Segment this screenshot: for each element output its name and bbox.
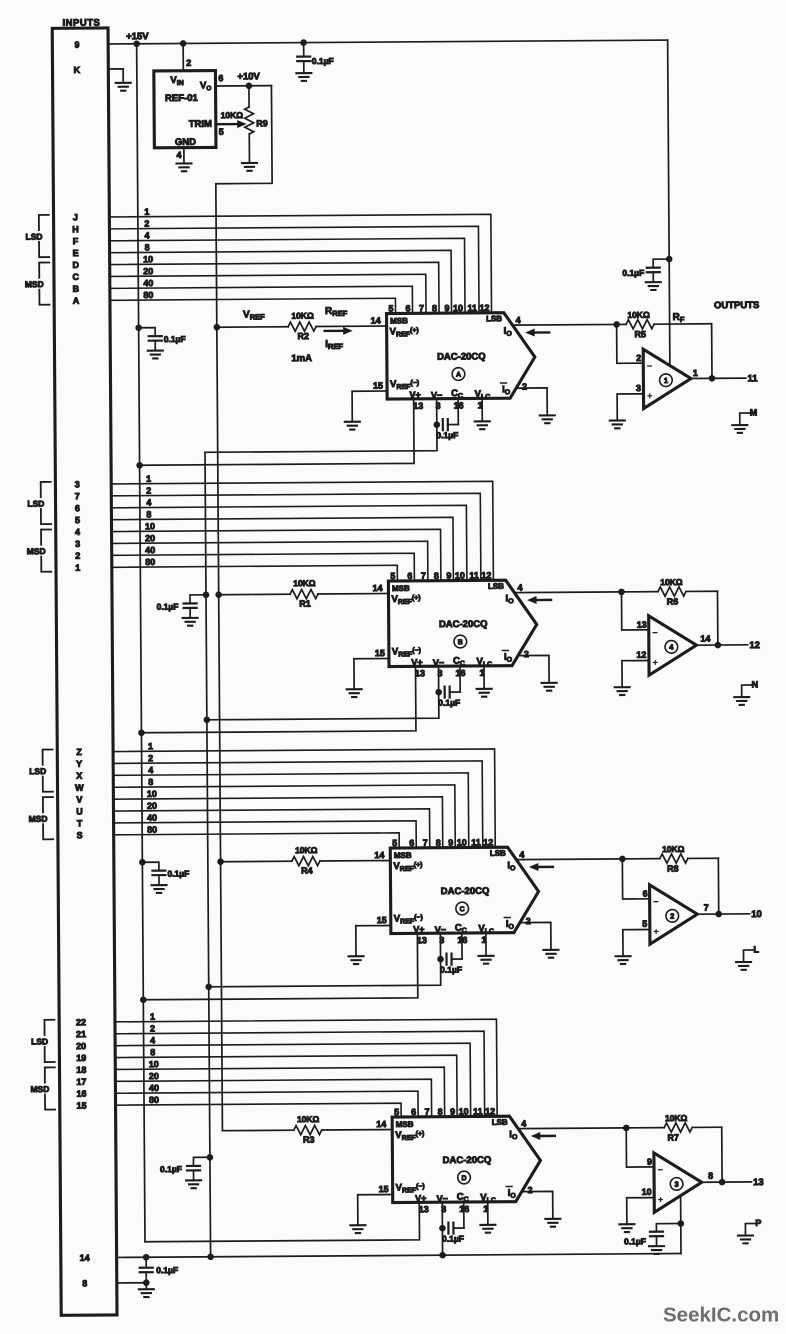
svg-text:R9: R9 (256, 118, 268, 128)
svg-text:MSB: MSB (394, 851, 412, 860)
label R3 (303, 1135, 315, 1145)
ground at trimpot R9 (242, 163, 257, 171)
wire op-amp output (702, 1181, 752, 1183)
svg-text:V+: V+ (411, 657, 422, 667)
label 1mA (291, 353, 312, 364)
svg-text:7: 7 (419, 303, 424, 313)
wire V- supply from pin 14 (117, 1254, 681, 1258)
svg-text:R8: R8 (667, 864, 679, 874)
wire input bit 1 (group B) to DAC pin 12 (111, 481, 493, 583)
node junction +15V rail (140, 996, 147, 1003)
svg-text:MSD: MSD (29, 814, 48, 824)
svg-text:6: 6 (405, 303, 410, 313)
svg-text:10KΩ: 10KΩ (293, 578, 316, 588)
svg-text:8: 8 (436, 838, 441, 848)
svg-text:LSD: LSD (31, 1036, 48, 1046)
wire DAC V+ pin 13 to +15V rail (145, 1202, 420, 1241)
capacitor 0.1uF supply decoupling (142, 862, 165, 885)
svg-text:10: 10 (455, 570, 465, 580)
svg-text:10KΩ: 10KΩ (665, 1113, 688, 1123)
capacitor 0.1uF op-amp U1 supply bypass (647, 259, 670, 282)
input pin label H (72, 224, 79, 234)
svg-text:80: 80 (145, 557, 155, 567)
output pin label (704, 903, 709, 913)
capacitor 0.1uF compensation CC (448, 1202, 464, 1234)
svg-text:13: 13 (415, 668, 425, 678)
svg-text:10KΩ: 10KΩ (221, 110, 244, 120)
ground at decoupling capacitor (148, 351, 163, 359)
wire DAC VREF(-) pin 15 to ground (354, 659, 389, 690)
wire VREF to R4 (221, 860, 292, 862)
svg-text:4: 4 (519, 850, 524, 860)
input pin label T (77, 818, 83, 828)
svg-text:9: 9 (446, 571, 451, 581)
wire op-amp U3 V- supply pin (680, 1196, 682, 1254)
svg-text:TRIM: TRIM (189, 119, 212, 130)
svg-text:B: B (458, 639, 463, 646)
svg-text:0.1µF: 0.1µF (157, 601, 179, 611)
bracket LSD group D (29, 1020, 54, 1062)
inverting pin label (643, 889, 648, 899)
wire non-inverting input to ground (622, 661, 649, 688)
svg-text:10: 10 (143, 254, 153, 264)
wire DAC VLC pin 1 to ground (481, 398, 483, 421)
wire DAC IO pin 4 to summing node (515, 591, 621, 594)
svg-text:V: V (76, 795, 82, 805)
svg-text:6: 6 (411, 1107, 416, 1117)
svg-text:10: 10 (751, 909, 762, 920)
input pin label 19 (76, 1053, 86, 1063)
capacitor 0.1uF compensation CC (446, 933, 462, 965)
node junction V- rail / decoupling capacitor (203, 591, 210, 598)
svg-text:2: 2 (528, 1185, 533, 1195)
svg-text:16: 16 (76, 1089, 86, 1099)
input pin label 4 (75, 527, 80, 537)
wire DAC V- pin 3 branch (208, 933, 440, 987)
svg-text:15: 15 (377, 915, 387, 925)
svg-text:MSD: MSD (30, 1084, 49, 1094)
trimpot R9 10K (245, 86, 254, 163)
svg-text:2: 2 (636, 353, 641, 363)
svg-text:SeekIC.com: SeekIC.com (663, 1304, 779, 1327)
svg-text:7: 7 (75, 491, 80, 501)
node junction +15V / bypass capacitor (300, 39, 307, 46)
svg-text:10KΩ: 10KΩ (627, 310, 650, 320)
ground at REF-01 pin 4 (176, 163, 191, 171)
svg-text:MSD: MSD (25, 279, 44, 289)
svg-text:R4: R4 (301, 866, 313, 876)
label bus weight 20 (143, 266, 153, 276)
svg-text:4: 4 (144, 230, 149, 240)
non-inverting pin label (642, 1187, 652, 1197)
svg-text:0.1µF: 0.1µF (312, 56, 334, 66)
bracket LSD group C (28, 749, 53, 791)
input pin label 2 (75, 551, 80, 561)
svg-text:LSD: LSD (25, 232, 42, 242)
ground at decoupling capacitor (183, 618, 198, 626)
svg-text:B: B (73, 284, 80, 294)
svg-text:0.1µF: 0.1µF (156, 1265, 178, 1275)
svg-text:40: 40 (149, 1083, 159, 1093)
svg-text:20: 20 (76, 1041, 86, 1051)
arrow IREF current direction (325, 327, 353, 335)
wire input bit 2 (group B) to DAC pin 11 (111, 493, 481, 583)
label 0.1uF compensation (438, 698, 460, 708)
node junction +15V right rail / bypass capacitor (666, 256, 673, 263)
wire input bit 2 (group A) to DAC pin 11 (109, 226, 479, 315)
capacitor 0.1uF supply decoupling (187, 1157, 210, 1180)
label bus weight 8 (148, 777, 153, 787)
svg-text:11: 11 (469, 570, 479, 580)
node summing junction at R8 (619, 856, 626, 863)
pin 2 label (186, 58, 191, 68)
label OUTPUTS (714, 300, 759, 311)
wire DAC V+ pin 13 to +15V rail (141, 666, 416, 732)
svg-text:4: 4 (75, 527, 80, 537)
wire DAC IObar pin 2 to ground (518, 655, 549, 683)
svg-text:14: 14 (700, 634, 710, 644)
wire input bit 80 (group C) to DAC pin 5 (114, 833, 400, 850)
wire VREF to R2 (217, 326, 288, 328)
svg-text:15: 15 (373, 381, 383, 391)
svg-text:40: 40 (143, 278, 153, 288)
wire DAC IO pin 4 to summing node (519, 1127, 626, 1130)
svg-text:10: 10 (459, 1106, 469, 1116)
wire DAC IObar pin 2 to ground (520, 922, 551, 950)
svg-text:10KΩ: 10KΩ (660, 577, 683, 587)
input pin label 1 (75, 563, 80, 573)
wire input bit 20 (group A) to DAC pin 7 (110, 274, 426, 315)
label 10Kohm for R7 (665, 1113, 688, 1123)
label bus weight 80 (145, 557, 155, 567)
wire REF-01 pin 4 GND to ground (183, 148, 185, 164)
wire DAC IObar pin 2 to ground (516, 388, 547, 416)
non-inverting pin label (642, 919, 647, 929)
svg-text:V+: V+ (413, 924, 424, 934)
pin 4 label (176, 150, 181, 160)
op-amp U1 (1) (643, 349, 691, 409)
wire inverting input (617, 324, 644, 363)
input pin label 7 (75, 491, 80, 501)
svg-text:0.1µF: 0.1µF (440, 965, 462, 975)
svg-text:R3: R3 (303, 1135, 315, 1145)
wire +10V feedback to VREF rail (215, 86, 273, 328)
svg-text:MSB: MSB (396, 1120, 414, 1129)
svg-text:9: 9 (450, 1107, 455, 1117)
wire input bit 20 (group C) to DAC pin 7 (113, 809, 429, 850)
svg-text:10: 10 (149, 1059, 159, 1069)
svg-text:H: H (72, 224, 79, 234)
wire input bit 40 (group C) to DAC pin 6 (114, 821, 417, 850)
wire op-amp output (691, 377, 746, 379)
wire input bit 10 (group D) to DAC pin 8 (115, 1067, 444, 1119)
wire inverting input (626, 1128, 654, 1167)
svg-text:11: 11 (471, 837, 481, 847)
node junction V- rail end (207, 1253, 214, 1260)
label R5 (634, 329, 646, 339)
svg-text:0.1µF: 0.1µF (160, 1164, 182, 1174)
input pin label F (73, 236, 79, 246)
svg-text:LSD: LSD (27, 499, 44, 509)
label bus weight 80 (147, 825, 157, 835)
input pin label 22 (76, 1017, 86, 1027)
svg-text:20: 20 (147, 801, 157, 811)
svg-text:14: 14 (374, 850, 384, 860)
label bus weight 40 (149, 1083, 159, 1093)
wire input bit 20 (group D) to DAC pin 7 (115, 1079, 431, 1119)
wire input bit 40 (group B) to DAC pin 6 (112, 553, 415, 583)
label 10Kohm for R6 (660, 577, 683, 587)
label bus weight 4 (144, 230, 149, 240)
wire op-amp output (696, 644, 747, 646)
capacitor 0.1uF +15V bypass (297, 43, 310, 74)
svg-text:6: 6 (407, 571, 412, 581)
svg-text:10KΩ: 10KΩ (662, 844, 685, 854)
wire to system ground (145, 1283, 147, 1289)
svg-text:1: 1 (75, 563, 80, 573)
svg-text:DAC-20CQ: DAC-20CQ (443, 1155, 492, 1166)
svg-text:13: 13 (417, 935, 427, 945)
node summing junction at R6 (618, 589, 625, 596)
svg-text:DAC-20CQ: DAC-20CQ (437, 351, 486, 362)
svg-text:D: D (72, 260, 79, 270)
input pin label 3 (75, 479, 80, 489)
svg-text:4: 4 (521, 1119, 526, 1129)
ground at terminal M (732, 425, 747, 433)
svg-text:A: A (73, 296, 80, 306)
ground at op-amp U1 bypass capacitor (646, 282, 661, 290)
svg-text:7: 7 (704, 903, 709, 913)
input pin label 20 (76, 1041, 86, 1051)
ground at pin K (116, 83, 131, 91)
wire REF-01 pin 6 VO output (+10V) (216, 85, 272, 87)
wire input bit 10 (group A) to DAC pin 8 (110, 262, 439, 315)
wire input bit 10 (group B) to DAC pin 8 (112, 529, 441, 583)
svg-text:0.1µF: 0.1µF (622, 268, 644, 278)
arrow IO current direction (527, 596, 551, 604)
svg-text:5: 5 (642, 919, 647, 929)
input pin label 6 (75, 503, 80, 513)
arrow IO current direction (531, 1132, 555, 1140)
label bus weight 20 (145, 533, 155, 543)
resistor R2 10Kohm (288, 322, 316, 331)
output common terminal L (743, 944, 759, 962)
svg-text:13: 13 (419, 1204, 429, 1214)
ground at DAC pin 15 (350, 1225, 365, 1233)
svg-text:C: C (460, 906, 465, 913)
svg-text:40: 40 (145, 545, 155, 555)
ground at DAC pin 15 (347, 689, 362, 697)
label bus weight 2 (144, 219, 149, 229)
svg-text:8: 8 (82, 1278, 87, 1288)
wire +15V left rail down the page (137, 44, 145, 1242)
label bus weight 8 (145, 242, 150, 252)
capacitor 0.1uF op-amp U3 supply bypass (650, 1224, 681, 1247)
label RREF (325, 306, 348, 318)
label bus weight 40 (145, 545, 155, 555)
wire VREF rail down the page (217, 327, 223, 1130)
output common terminal M (740, 407, 758, 425)
label R9 (256, 118, 268, 128)
svg-text:14: 14 (376, 1119, 386, 1129)
resistor R8 10Kohm feedback (622, 854, 718, 915)
label 10Kohm for R5 (627, 310, 650, 320)
svg-text:10: 10 (642, 1187, 652, 1197)
svg-text:1: 1 (150, 1012, 155, 1022)
node summing junction at R7 (623, 1125, 630, 1132)
svg-text:8: 8 (150, 1047, 155, 1057)
label IREF (325, 339, 343, 351)
svg-text:4: 4 (516, 315, 521, 325)
input connector J1 INPUTS box (52, 28, 117, 1315)
label bus weight 80 (149, 1095, 159, 1105)
input pin label 18 (76, 1065, 86, 1075)
label 10Kohm for R9 (221, 110, 244, 120)
svg-text:10: 10 (453, 303, 463, 313)
input pin label 3 (75, 539, 80, 549)
svg-text:13: 13 (637, 620, 647, 630)
label 0.1uF op-amp U3 bypass (624, 1236, 646, 1246)
svg-text:80: 80 (143, 290, 153, 300)
label 0.1uF decoupling (157, 601, 179, 611)
wire DAC VLC pin 1 to ground (487, 1202, 489, 1225)
ground at non-inverting input (610, 420, 625, 428)
bracket MSD group A (23, 262, 49, 304)
svg-text:3: 3 (675, 1180, 679, 1189)
svg-text:INPUTS: INPUTS (62, 18, 100, 29)
label bus weight 1 (150, 1012, 155, 1022)
svg-text:7: 7 (423, 838, 428, 848)
resistor R5 10Kohm feedback (617, 319, 712, 379)
svg-text:12: 12 (485, 1106, 495, 1116)
wire R1 to DAC pin 14 (318, 593, 388, 595)
wire input bit 2 (group D) to DAC pin 11 (115, 1031, 485, 1119)
svg-text:7: 7 (425, 1107, 430, 1117)
wire input bit 40 (group A) to DAC pin 6 (110, 286, 413, 315)
node junction op-amp U3 supply / bypass capacitor (677, 1220, 684, 1227)
svg-text:6: 6 (409, 838, 414, 848)
wire pin 8 ground return (117, 1282, 146, 1284)
inverting pin label (647, 1157, 652, 1167)
label bus weight 10 (149, 1059, 159, 1069)
wire input bit 80 (group D) to DAC pin 5 (116, 1103, 402, 1119)
svg-text:LSB: LSB (486, 314, 502, 323)
input pin label 15 (77, 1101, 87, 1111)
wire DAC VREF(-) pin 15 to ground (356, 926, 391, 957)
svg-text:0.1µF: 0.1µF (164, 334, 186, 344)
node summing junction at R5 (613, 321, 620, 328)
svg-text:11: 11 (467, 303, 477, 313)
node junction feedback / output (715, 911, 722, 918)
label R2 (297, 331, 309, 341)
svg-text:1: 1 (146, 474, 151, 484)
label 10Kohm for R4 (295, 845, 318, 855)
wire REF-01 pin 5 TRIM to R9 wiper arrow (216, 120, 247, 128)
svg-text:9: 9 (74, 40, 79, 50)
label +15V (126, 31, 149, 42)
svg-text:15: 15 (375, 648, 385, 658)
wire VREF to R1 (219, 593, 290, 595)
svg-text:12: 12 (636, 650, 646, 660)
svg-text:T: T (77, 818, 83, 828)
input pin label B (73, 284, 80, 294)
resistor R1 10Kohm (290, 589, 318, 598)
svg-text:DAC-20CQ: DAC-20CQ (441, 886, 490, 897)
input pin label A (73, 296, 80, 306)
svg-text:R5: R5 (634, 329, 646, 339)
svg-text:9: 9 (647, 1157, 652, 1167)
input pin label U (76, 806, 83, 816)
label 0.1uF (312, 56, 334, 66)
node junction +10V / trimpot R9 (246, 82, 253, 89)
svg-text:10: 10 (457, 837, 467, 847)
svg-text:M: M (750, 407, 758, 417)
wire R3 to DAC pin 14 (322, 1129, 392, 1131)
svg-text:5: 5 (394, 1107, 399, 1117)
input pin label V (76, 795, 82, 805)
svg-text:20: 20 (145, 533, 155, 543)
svg-text:P: P (755, 1218, 761, 1228)
wire non-inverting input to ground (617, 394, 644, 421)
label output terminal 10 (751, 909, 762, 920)
node junction V- rail / decoupling capacitor (207, 1154, 214, 1161)
node junction feedback / output (719, 1179, 726, 1186)
wire DAC VREF(-) pin 15 to ground (358, 1195, 393, 1226)
svg-text:14: 14 (372, 583, 382, 593)
label 10Kohm for R3 (297, 1114, 320, 1124)
ground at decoupling capacitor (186, 1180, 201, 1188)
label R6 (667, 597, 679, 607)
label 10Kohm for R1 (293, 578, 316, 588)
svg-text:80: 80 (149, 1095, 159, 1105)
svg-text:5: 5 (392, 838, 397, 848)
wire input bit 8 (group D) to DAC pin 9 (115, 1055, 457, 1119)
svg-text:15: 15 (77, 1101, 87, 1111)
svg-text:R1: R1 (299, 599, 311, 609)
svg-text:R2: R2 (297, 331, 309, 341)
capacitor 0.1uF supply decoupling (183, 595, 206, 618)
wire DAC V- pin 3 branch (441, 1202, 443, 1255)
svg-text:10KΩ: 10KΩ (291, 311, 314, 321)
bracket LSD group B (26, 482, 51, 524)
ground at op-amp U3 bypass capacitor (649, 1246, 664, 1254)
svg-text:4: 4 (146, 497, 151, 507)
inverting pin label (637, 620, 647, 630)
label R4 (301, 866, 313, 876)
svg-text:0.1µF: 0.1µF (442, 1234, 464, 1244)
DAC U2 DAC-20CQ B (372, 570, 537, 679)
node junction +15V rail (136, 462, 143, 469)
svg-text:LSD: LSD (29, 766, 46, 776)
svg-text:MSB: MSB (392, 584, 410, 593)
svg-text:19: 19 (76, 1053, 86, 1063)
label R7 (667, 1133, 679, 1143)
svg-text:GND: GND (175, 137, 196, 148)
svg-text:1mA: 1mA (291, 353, 312, 364)
label 0.1uF decoupling (160, 1164, 182, 1174)
label bus weight 80 (143, 290, 153, 300)
svg-text:2: 2 (146, 486, 151, 496)
label output terminal 13 (753, 1177, 764, 1188)
wire REF-01 pin 2 VIN to +15V (182, 43, 184, 70)
input pin label Y (76, 759, 82, 769)
label bus weight 8 (146, 509, 151, 519)
svg-text:8: 8 (148, 777, 153, 787)
svg-text:MSB: MSB (390, 316, 408, 325)
svg-text:1: 1 (144, 207, 149, 217)
svg-text:+10V: +10V (237, 71, 260, 82)
wire op-amp output (697, 913, 749, 915)
